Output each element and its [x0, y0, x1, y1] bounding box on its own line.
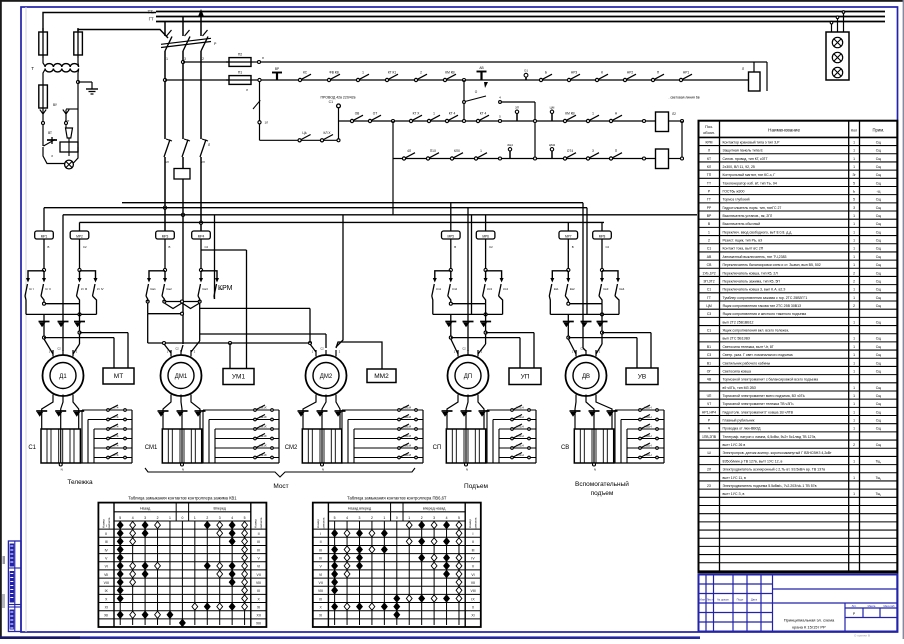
svg-text:Б: Б [545, 71, 547, 75]
contactor pair left at 44 [42, 268, 45, 271]
svg-text:2: 2 [708, 239, 710, 243]
row lines [313, 528, 481, 530]
svg-text:С1: С1 [28, 445, 36, 451]
feed drop middle Д1 [62, 215, 64, 351]
svg-text:XI: XI [257, 605, 260, 609]
grid bottom bus [486, 462, 536, 464]
contact О branch [463, 101, 466, 104]
svg-text:XIII: XIII [256, 622, 261, 626]
rotor overload mark [335, 410, 346, 412]
svg-text:Таблица замыкания контактов ко: Таблица замыкания контактов контроллера … [128, 496, 237, 501]
svg-text:КМ1Х: КМ1Х [259, 424, 267, 428]
grid bottom bus [80, 462, 132, 464]
svg-text:МР8: МР8 [599, 234, 606, 238]
svg-text:Сщ: Сщ [876, 181, 881, 185]
svg-text:2З: 2З [707, 484, 711, 488]
transformer T primary winding [45, 64, 79, 67]
title block [699, 575, 898, 632]
svg-text:Электропров. датчик асинхр. к: Электропров. датчик асинхр. короткозамкн… [723, 451, 833, 455]
svg-text:Лист: Лист [707, 598, 714, 602]
svg-text:НР2: НР2 [627, 71, 633, 75]
reactor МР4 [192, 231, 211, 239]
grid contact 1 [107, 409, 110, 412]
rotor overload mark [177, 410, 188, 412]
grid contact 3 [254, 428, 257, 431]
lamp feed wires [831, 22, 833, 32]
svg-text:КП1Н: КП1Н [516, 443, 523, 447]
grid contact 2 [107, 418, 110, 421]
svg-text:1: 1 [853, 369, 855, 373]
svg-text:3: 3 [144, 516, 146, 520]
node to motor left [567, 336, 570, 339]
tail contact 2 [320, 139, 323, 142]
wires below reactors [567, 239, 569, 270]
svg-text:КТ К1: КТ К1 [388, 71, 397, 75]
grid contact 5 [107, 447, 110, 450]
svg-text:Выключатель установ., вк, 2ГЛ: Выключатель установ., вк, 2ГЛ [723, 214, 774, 218]
svg-text:З: З [853, 206, 855, 210]
node after П2 [254, 61, 258, 63]
svg-text:КТ 4: КТ 4 [449, 112, 456, 116]
svg-text:КП1Н: КП1Н [516, 415, 523, 419]
svg-text:2: 2 [853, 304, 855, 308]
svg-text:КМ1Х: КМ1Х [259, 453, 267, 457]
svg-text:2: 2 [853, 279, 855, 283]
svg-text:Л: Л [708, 149, 710, 153]
svg-text:МР1: МР1 [41, 234, 48, 238]
svg-text:вьлт 1УС 11, в: вьлт 1УС 11, в [723, 476, 747, 480]
bell ЗВ [65, 160, 74, 169]
svg-text:Сщ: Сщ [876, 296, 881, 300]
grid contact 3 [639, 428, 642, 431]
svg-text:Сщ: Сщ [876, 206, 881, 210]
distribution bus line 2 [63, 214, 697, 216]
left branch vertical [258, 78, 261, 81]
svg-text:Тормозной электромагнит с б: Тормозной электромагнит с балансировкой … [723, 378, 819, 382]
motor ДП rotor wires [447, 395, 458, 419]
scan bottom blue band [0, 636, 700, 639]
crossover wires [549, 296, 550, 314]
svg-text:XII: XII [257, 614, 261, 618]
svg-text:КМ1М: КМ1М [403, 453, 412, 457]
svg-text:КРМ: КРМ [218, 285, 233, 292]
svg-text:Сщ: Сщ [876, 149, 881, 153]
svg-text:Наименование: Наименование [768, 128, 800, 133]
svg-text:1: 1 [853, 247, 855, 251]
supply arrow [198, 9, 204, 17]
row lines [98, 528, 266, 530]
rotor overload mark [461, 410, 472, 412]
svg-text:Прим.: Прим. [873, 128, 885, 133]
bell return wire [73, 152, 78, 163]
svg-text:Л: Л [742, 67, 744, 71]
svg-text:МР6: МР6 [482, 234, 489, 238]
svg-text:Мост: Мост [273, 483, 288, 490]
svg-text:П2: П2 [238, 53, 242, 57]
svg-text:Кт III: Кт III [81, 287, 87, 291]
svg-text:Тщ,: Тщ, [876, 476, 882, 480]
svg-text:контакта: контакта [259, 517, 263, 529]
svg-text:Тележка: Тележка [67, 479, 93, 486]
knife switch stationary hooks [167, 30, 172, 36]
svg-text:контакта: контакта [473, 517, 477, 529]
svg-text:ОТ4: ОТ4 [567, 149, 573, 153]
node at secondary [77, 81, 80, 84]
svg-text:0: 0 [181, 516, 183, 520]
rung1 contact 2 [327, 78, 330, 81]
svg-text:1: 1 [853, 419, 855, 423]
svg-text:контакта: контакта [321, 517, 325, 529]
svg-text:Электродвигатель асинхронный: Электродвигатель асинхронный с 2,7Ь вт. … [723, 468, 826, 472]
svg-text:ВР: ВР [275, 67, 279, 71]
empty rows [699, 505, 898, 507]
svg-text:1: 1 [853, 140, 855, 144]
svg-text:КТ4: КТ4 [114, 443, 119, 447]
svg-text:СВ: СВ [707, 263, 712, 267]
rung1 contact r2 [567, 78, 570, 81]
brake magnet МТ [103, 368, 134, 384]
rotor overload mark [298, 410, 309, 412]
grid contact 3 [398, 428, 401, 431]
svg-text:ЧП: ЧП [707, 394, 712, 398]
svg-text:VII: VII [471, 581, 475, 585]
КРМ V-joins [164, 303, 182, 309]
grid contact 1 [398, 409, 401, 412]
rotor wires into box [41, 418, 43, 429]
verticals below switch [164, 51, 166, 139]
svg-text:Принципиальная эл. схема: Принципиальная эл. схема [784, 618, 835, 623]
svg-text:Выключатель обычный: Выключатель обычный [723, 222, 761, 226]
svg-text:2: 2 [421, 516, 423, 520]
svg-text:Сщ: Сщ [876, 279, 881, 283]
svg-text:Вперед: Вперед [214, 507, 227, 511]
title block right rows [773, 588, 898, 590]
svg-text:Сщ: Сщ [876, 230, 881, 234]
svg-text:С3: С3 [707, 312, 711, 316]
svg-text:1: 1 [853, 361, 855, 365]
rung3 feeder [392, 121, 394, 159]
rotor contact grid СВ [615, 409, 664, 411]
grid bottom bus [614, 462, 664, 464]
grid contact 2 [254, 418, 257, 421]
resistor box СМ2 [302, 429, 341, 463]
svg-text:1: 1 [362, 71, 364, 75]
svg-text:ШТ: ШТ [65, 119, 70, 123]
fuse Пр1 [39, 32, 48, 55]
svg-text:СМ1: СМ1 [145, 445, 158, 451]
svg-text:1: 1 [853, 427, 855, 431]
grid contact 1 [639, 409, 642, 412]
svg-text:КТ: КТ [707, 157, 711, 161]
svg-text:4: 4 [446, 516, 448, 520]
svg-text:1: 1 [166, 57, 168, 61]
svg-text:Светосила ковша: Светосила ковша [723, 369, 752, 373]
brake wire A [568, 337, 637, 339]
relay coil 1У [656, 112, 669, 132]
brake ММ2 wire [336, 342, 382, 369]
scan edge top [0, 0, 904, 2]
svg-text:8З5об/мин.р ТВ 127в, вьлт 1УС: 8З5об/мин.р ТВ 127в, вьлт 1УС 12, в [723, 459, 783, 463]
grid contact 4 [511, 437, 514, 440]
svg-text:2Л: 2Л [707, 468, 711, 472]
ДМ1 left terminal net + ДМ2 left feed [147, 314, 149, 343]
svg-text:Кп4: Кп4 [503, 287, 508, 291]
svg-text:3: 3 [219, 516, 221, 520]
svg-text:Км1: Км1 [151, 287, 157, 291]
overload element [74, 321, 85, 323]
svg-text:КЛХ: КЛХ [454, 149, 461, 153]
svg-text:1: 1 [853, 320, 855, 324]
brake magnet УП [509, 368, 541, 385]
wire fuse-A to bus [43, 13, 156, 32]
contact table frame [98, 503, 266, 627]
svg-text:Тщ,: Тщ, [876, 459, 882, 463]
margin specks [3, 556, 6, 564]
contactor lower stubs [164, 157, 166, 231]
svg-text:ГТ: ГТ [149, 17, 154, 22]
svg-text:КМ1М: КМ1М [403, 434, 412, 438]
svg-text:КМ1Х: КМ1Х [259, 434, 267, 438]
svg-text:Сщ: Сщ [876, 402, 881, 406]
brake tap circle [78, 331, 81, 334]
grid verticals [81, 410, 83, 463]
svg-text:КМ1Х: КМ1Х [259, 443, 267, 447]
knife switch Р blades [165, 37, 172, 52]
grid contact 2 [639, 418, 642, 421]
brake tap circle [484, 331, 487, 334]
svg-text:1: 1 [480, 149, 482, 153]
svg-text:1: 1 [853, 263, 855, 267]
svg-text:С1: С1 [329, 100, 333, 104]
svg-text:УМ1: УМ1 [232, 374, 246, 381]
svg-text:XI: XI [319, 614, 322, 618]
svg-text:НР1: НР1 [683, 71, 689, 75]
rung 1 wire [254, 79, 749, 81]
lamp HL2 [832, 52, 842, 62]
svg-text:С2: С2 [606, 245, 610, 249]
svg-text:II: II [105, 532, 107, 536]
svg-text:КТ4: КТ4 [114, 424, 119, 428]
feed drop to МР2 [79, 222, 81, 231]
brake УМ1 wire B [229, 343, 231, 369]
svg-text:Сщ: Сщ [876, 419, 881, 423]
rung1 contact 4 [385, 78, 388, 81]
svg-text:1: 1 [383, 516, 385, 520]
fuse Пр2 [74, 32, 83, 55]
svg-text:В: В [169, 245, 171, 249]
wire to fuse П1 [165, 79, 229, 81]
svg-text:вып 2ТС 5В1ЗВЗ: вып 2ТС 5В1ЗВЗ [723, 337, 751, 341]
svg-text:Кп1: Кп1 [436, 287, 441, 291]
contact diamonds [456, 521, 462, 528]
svg-text:РР: РР [707, 206, 712, 210]
svg-text:Переключ. ввод свободного, вь: Переключ. ввод свободного, вьТ 8.0.8. д.… [723, 230, 793, 234]
svg-text:МР7: МР7 [565, 234, 572, 238]
svg-text:Кт IV: Кт IV [97, 287, 104, 291]
caption Мост brace [145, 468, 415, 477]
parts table rows [699, 145, 898, 147]
brake wire B [486, 332, 534, 334]
svg-text:С1: С1 [707, 288, 711, 292]
node fuse П2 tap [181, 60, 184, 63]
svg-text:Проводка от люк-ВВОД: Проводка от люк-ВВОД [723, 427, 762, 431]
svg-text:Л: Л [208, 143, 210, 147]
svg-text:КВ1Н: КВ1Н [644, 415, 651, 419]
svg-text:4: 4 [231, 516, 233, 520]
contact diamonds [117, 521, 123, 528]
svg-text:МТ: МТ [114, 373, 123, 380]
svg-text:1: 1 [853, 459, 855, 463]
grid contact 2 [398, 418, 401, 421]
svg-text:ОВ: ОВ [355, 112, 360, 116]
svg-text:Ящик сопротивления вкл. всег: Ящик сопротивления вкл. всего тележек, [723, 329, 790, 333]
svg-text:КТ4: КТ4 [114, 434, 119, 438]
bus line 1 [156, 11, 885, 13]
svg-text:МР4: МР4 [198, 234, 205, 238]
svg-text:Тормозной электромагнит тел: Тормозной электромагнит тележка ТВ чЗГЬ [723, 402, 795, 406]
svg-text:Переключатель ковша, тип К5,: Переключатель ковша, тип К5, 2Л [723, 271, 779, 275]
reactor МР1 [35, 231, 54, 239]
svg-text:УП: УП [521, 373, 530, 380]
svg-text:Резист. ящик, тип РЬ, вЗ: Резист. ящик, тип РЬ, вЗ [723, 239, 763, 243]
svg-text:П1Х: П1Х [430, 149, 437, 153]
reactor МР2 [70, 231, 89, 239]
distribution bus line 3 [80, 221, 605, 223]
title block left grid [705, 575, 707, 632]
svg-text:ЦМ2: ЦМ2 [549, 143, 556, 147]
crossover wires [432, 296, 433, 314]
grid contact 4 [639, 437, 642, 440]
svg-text:Сщ: Сщ [876, 222, 881, 226]
svg-text:N: N [61, 468, 63, 472]
rung1 contact r6 [679, 78, 682, 81]
svg-text:КС: КС [303, 71, 308, 75]
svg-text:Кол: Кол [851, 129, 857, 133]
rotor overload mark [36, 410, 47, 412]
svg-text:КМ1Х: КМ1Х [259, 415, 267, 419]
svg-text:КТ Х: КТ Х [413, 112, 421, 116]
rotor overload mark [570, 410, 581, 412]
svg-text:ЧВ: ЧВ [707, 378, 712, 382]
scan edge left [0, 0, 2, 639]
brake magnet УВ [626, 368, 658, 385]
svg-text:1: 1 [853, 345, 855, 349]
bus line 2 [156, 16, 885, 18]
rotor overload mark [442, 410, 453, 412]
svg-text:Д1: Д1 [59, 374, 67, 380]
rung1 contact r1 [539, 78, 542, 81]
svg-text:1УБ,1Р2: 1УБ,1Р2 [702, 271, 715, 275]
svg-text:II: II [258, 532, 260, 536]
svg-text:С2: С2 [175, 347, 179, 351]
svg-text:Тщ,: Тщ, [876, 492, 882, 496]
svg-text:Переключатель балансировки схе: Переключатель балансировки схем и ст. Зь… [723, 263, 821, 267]
rotor contact grid СП [487, 409, 536, 411]
rung2 contact 8 [586, 119, 589, 122]
svg-text:1: 1 [853, 410, 855, 414]
svg-text:КТ4: КТ4 [114, 405, 119, 409]
svg-text:С3: С3 [707, 353, 711, 357]
svg-text:З: З [51, 154, 53, 158]
svg-text:4: 4 [346, 516, 348, 520]
column verticals [334, 521, 336, 625]
svg-text:КВ1Н: КВ1Н [644, 434, 651, 438]
rung2 contact 1 [350, 119, 353, 122]
grid verticals [341, 410, 343, 463]
bus line 3 [156, 21, 885, 23]
svg-text:-щ: -щ [876, 189, 880, 193]
svg-text:КВ1Н: КВ1Н [644, 443, 651, 447]
svg-text:ДМ2: ДМ2 [320, 374, 333, 380]
svg-text:Км2: Км2 [167, 287, 173, 291]
contactor Л main contacts [164, 140, 170, 158]
contact table frame [313, 503, 481, 627]
node to motor left [43, 336, 46, 339]
svg-text:Кв4: Кв4 [620, 287, 625, 291]
svg-text:1: 1 [853, 255, 855, 259]
tail contact 1 [298, 139, 301, 142]
svg-text:Сщ: Сщ [876, 394, 881, 398]
svg-text:VIII: VIII [470, 589, 475, 593]
motor ДМ2 circle [306, 355, 347, 396]
wires below reactors [164, 239, 166, 270]
svg-text:Подъем: Подъем [464, 483, 488, 490]
rung1 contact r5 [651, 78, 654, 81]
motor ДП terminals [457, 350, 459, 357]
svg-text:VI: VI [105, 565, 108, 569]
motor ДМ1 circle [161, 355, 202, 396]
svg-text:Главный рубильник: Главный рубильник [723, 419, 755, 423]
svg-text:Назад вперед: Назад вперед [348, 507, 372, 511]
contactor pair right at 79.5 [78, 268, 81, 271]
svg-text:Сщ: Сщ [876, 345, 881, 349]
node rung1 x464 [463, 79, 466, 82]
lamp HL1 [832, 37, 842, 47]
svg-text:Номер: Номер [253, 519, 257, 529]
rung2 contact 5 [445, 119, 448, 122]
resistor box С1 [41, 429, 80, 463]
knife switch link bar [161, 42, 211, 48]
rung3 down feeder to bus [392, 159, 394, 215]
motor Д1 terminals [52, 350, 54, 357]
svg-text:КТ 4: КТ 4 [480, 112, 487, 116]
svg-text:В1: В1 [707, 361, 711, 365]
svg-text:ДП: ДП [464, 374, 472, 380]
grid contact 6 [639, 456, 642, 459]
svg-text:I: I [320, 532, 321, 536]
node О1 with stub [525, 77, 527, 80]
svg-text:ВР: ВР [707, 214, 712, 218]
svg-text:КМ1Х: КМ1Х [259, 405, 267, 409]
svg-text:КЛ: КЛ [707, 165, 711, 169]
brake wire A [451, 337, 520, 339]
svg-text:С2: С2 [205, 245, 209, 249]
svg-text:1: 1 [853, 239, 855, 243]
svg-text:Л2: Л2 [672, 112, 676, 116]
svg-text:МР2: МР2 [76, 234, 83, 238]
signal lamp box HL [826, 32, 849, 80]
svg-text:С1: С1 [707, 247, 711, 251]
svg-text:С2: С2 [462, 347, 466, 351]
svg-text:VIII: VIII [104, 581, 109, 585]
svg-text:N: N [594, 468, 596, 472]
contactor pair right at 602 [600, 268, 603, 271]
main vertical L2 [182, 17, 184, 37]
КРМ lower crossover [148, 313, 182, 315]
svg-text:Кв1: Кв1 [554, 287, 559, 291]
svg-text:1: 1 [853, 386, 855, 390]
svg-text:0: 0 [396, 516, 398, 520]
